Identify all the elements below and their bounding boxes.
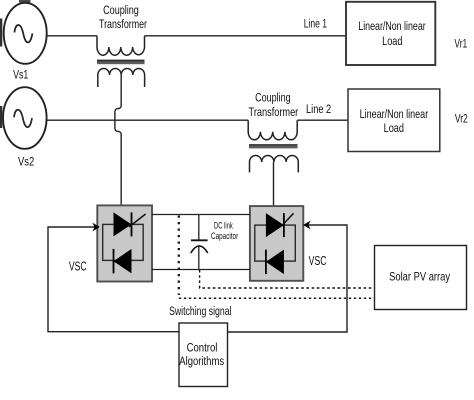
transformer T2 core <box>249 144 298 146</box>
wire Line 2 <box>297 119 348 121</box>
control block Control Algorithms <box>179 323 228 387</box>
VSC1 inner rectangle <box>103 224 144 260</box>
svg-text:Line 2: Line 2 <box>306 102 331 116</box>
VSC2 converter block <box>250 206 303 281</box>
wire control to VSC1 gate <box>48 227 179 332</box>
switching signal dotted line (bold) horizontal to solar array <box>179 297 375 299</box>
load block Load1 <box>346 2 435 65</box>
wire Line 1 <box>145 35 347 37</box>
switching signal dotted line (bold) from DC bus top <box>178 216 180 296</box>
capacitor DC link <box>198 215 200 241</box>
wire DC bus bottom <box>152 269 250 271</box>
svg-text:Control: Control <box>187 340 218 354</box>
svg-text:Coupling: Coupling <box>103 3 139 17</box>
svg-text:DC link: DC link <box>214 220 233 231</box>
svg-text:Transformer: Transformer <box>99 17 147 31</box>
svg-text:Load: Load <box>382 34 402 48</box>
svg-text:Vs1: Vs1 <box>13 68 28 82</box>
wire DC bus top <box>152 214 250 216</box>
svg-text:Solar PV array: Solar PV array <box>389 269 451 283</box>
wire Vs1 to T1 primary <box>47 35 97 37</box>
transformer T1 core <box>97 60 145 62</box>
svg-text:Algorithms: Algorithms <box>179 354 224 368</box>
svg-text:Vs2: Vs2 <box>18 154 34 168</box>
svg-text:Switching signal: Switching signal <box>169 304 231 318</box>
svg-text:Vr2: Vr2 <box>455 111 468 125</box>
VSC1 upper thyristor <box>114 212 132 236</box>
svg-text:Line 1: Line 1 <box>304 17 327 31</box>
svg-text:Capacitor: Capacitor <box>211 231 238 241</box>
VSC1 lower thyristor <box>114 249 132 274</box>
load block Load2 <box>348 89 440 152</box>
arrowhead into VSC2 <box>303 221 311 230</box>
wire control to VSC2 gate <box>228 225 348 332</box>
transformer T1 primary winding <box>97 36 145 55</box>
VSC2 inner rectangle <box>255 225 295 261</box>
VSC1 converter block <box>97 205 152 281</box>
wire Vs2 to T2 primary <box>47 119 249 121</box>
svg-text:Load: Load <box>384 121 404 135</box>
svg-text:VSC: VSC <box>69 259 87 273</box>
svg-text:Transformer: Transformer <box>249 105 299 119</box>
svg-text:Vr1: Vr1 <box>454 37 467 51</box>
transformer T2 primary winding <box>248 120 297 140</box>
source Vs2 <box>3 87 47 149</box>
solar PV array block <box>375 246 467 310</box>
svg-text:Linear/Non linear: Linear/Non linear <box>358 19 425 33</box>
source Vs1 <box>4 3 47 64</box>
svg-text:Coupling: Coupling <box>255 91 291 105</box>
switching signal dashed line from DC bus bottom to solar array <box>200 270 375 288</box>
VSC2 lower thyristor <box>266 250 284 275</box>
svg-text:Linear/Non linear: Linear/Non linear <box>360 107 429 121</box>
wire T1 secondary tap to VSC1 (crossover jog at Vs2 line) <box>115 75 121 205</box>
svg-text:VSC: VSC <box>309 254 327 268</box>
transformer T1 secondary winding <box>98 68 145 87</box>
transformer T2 secondary winding <box>250 156 299 173</box>
VSC2 upper thyristor <box>266 213 284 237</box>
arrowhead into VSC1 <box>92 223 100 232</box>
wire T2 secondary tap to VSC2 <box>273 162 275 206</box>
